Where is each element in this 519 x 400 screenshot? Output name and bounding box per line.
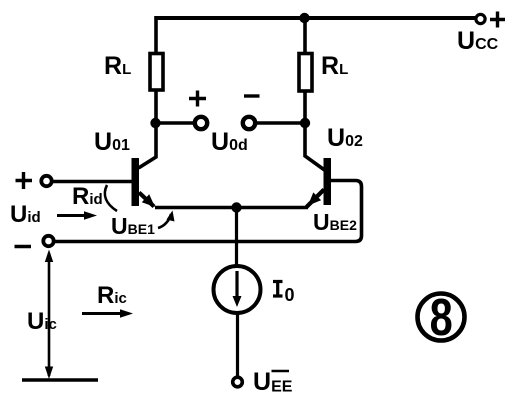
- current source I0: [214, 266, 261, 313]
- wire left collector branch: [139, 91, 157, 168]
- svg-text:0: 0: [285, 285, 295, 305]
- svg-text:Uic: Uic: [27, 308, 57, 335]
- measure arrow Uic: [45, 250, 53, 380]
- terminal UEE: [233, 377, 243, 387]
- resistor RL (right): [299, 54, 312, 92]
- svg-text:U02: U02: [327, 124, 363, 152]
- wire collector1 to output plus terminal: [155, 121, 194, 125]
- transistor T1: [132, 158, 156, 207]
- svg-text:Rid: Rid: [72, 183, 103, 210]
- input terminal minus: [43, 236, 53, 246]
- label UEE with overline: [253, 368, 293, 396]
- wire base2 and bottom input rail: [55, 181, 362, 242]
- svg-text:U01: U01: [94, 128, 130, 156]
- wire right branch upper: [303, 16, 307, 53]
- svg-text:UCC: UCC: [457, 27, 499, 55]
- wire current source to UEE terminal: [236, 313, 239, 376]
- wire base1: [53, 180, 132, 184]
- node collector2: [300, 118, 310, 128]
- power terminal UCC: [476, 12, 505, 28]
- output terminal plus: [195, 117, 207, 129]
- output terminal minus: [243, 117, 255, 129]
- label I0: [273, 282, 295, 306]
- label UBE1 with arc arrows: [105, 185, 175, 239]
- resistor RL (left): [150, 54, 163, 91]
- wire left branch upper: [154, 16, 158, 53]
- arrow Rid: [57, 211, 97, 220]
- label minus input: [15, 245, 32, 248]
- badge figure number 8: [418, 288, 465, 347]
- node top rail junction: [299, 13, 309, 23]
- wire right collector branch: [305, 92, 325, 170]
- node emitter junction: [231, 202, 241, 212]
- input terminal plus: [41, 176, 51, 186]
- arrow Ric: [82, 309, 133, 318]
- label plus output: [189, 91, 206, 107]
- transistor T2: [307, 158, 332, 207]
- ground reference bar: [22, 378, 98, 382]
- label plus input: [16, 172, 33, 189]
- wire top supply rail: [155, 16, 475, 20]
- node collector1: [150, 118, 160, 128]
- svg-text:RL: RL: [104, 52, 131, 80]
- svg-text:UBE1: UBE1: [111, 213, 155, 239]
- label minus output: [244, 94, 260, 97]
- svg-text:U0d: U0d: [211, 128, 248, 156]
- svg-text:Ric: Ric: [97, 282, 127, 309]
- svg-text:RL: RL: [321, 52, 348, 80]
- wire emitter node to current source: [235, 208, 238, 267]
- svg-text:UBE2: UBE2: [313, 209, 357, 235]
- svg-text:8: 8: [430, 288, 453, 347]
- svg-text:Uid: Uid: [10, 201, 41, 228]
- wire output minus to collector2: [256, 121, 305, 125]
- wire common emitter rail: [155, 206, 308, 210]
- label UBE2 with arc arrow: [313, 209, 357, 235]
